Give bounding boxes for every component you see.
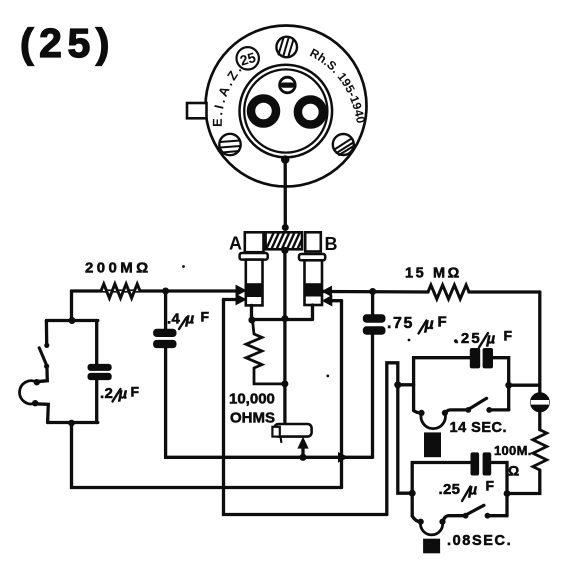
pin hole left xyxy=(251,99,276,124)
switch contact lower xyxy=(44,364,49,369)
wire loop bottom down to bus2 xyxy=(72,423,342,488)
wire loop1 tap to lamp column xyxy=(509,384,540,387)
node at block bottom xyxy=(281,247,288,254)
svg-text:µ: µ xyxy=(486,331,496,348)
svg-text:B: B xyxy=(325,234,338,254)
svg-text:Ω: Ω xyxy=(508,463,519,479)
switch contact upper xyxy=(44,343,49,348)
wire to plug xyxy=(37,367,48,382)
arrow on bus1 xyxy=(339,453,348,462)
timer switch loop top xyxy=(46,319,97,322)
pin B body xyxy=(305,260,323,305)
pin B flange xyxy=(299,254,325,260)
small top pin hole xyxy=(280,77,296,93)
loop2 thermal element xyxy=(423,539,440,554)
node wiper/bus1 xyxy=(299,454,306,461)
svg-text:15 MΩ: 15 MΩ xyxy=(405,266,462,282)
socket inner ring xyxy=(239,65,332,158)
node loop bottom xyxy=(68,420,75,427)
wire pin A lower arrow xyxy=(224,298,238,301)
capacitor .25uF no2 plates xyxy=(471,452,480,475)
svg-text:14 SEC.: 14 SEC. xyxy=(450,420,508,436)
wire plug to loop bottom xyxy=(35,404,48,423)
svg-text:F: F xyxy=(504,328,513,344)
potentiometer wiper arrow xyxy=(301,448,304,458)
loop bottom edge xyxy=(48,421,98,424)
capacitor .4uF upper lead xyxy=(164,291,167,330)
loop1 lamp xyxy=(414,411,422,413)
terminal block (hatched) xyxy=(266,232,302,249)
svg-text:µ: µ xyxy=(468,482,478,499)
svg-text:OHMS: OHMS xyxy=(230,410,275,427)
switch branch upper wire xyxy=(45,321,49,345)
node center wire cross xyxy=(281,315,288,322)
node loop2 left feed xyxy=(409,490,416,497)
resistor 100Mohm xyxy=(533,430,547,470)
svg-text:.4: .4 xyxy=(167,311,180,328)
jumper loop over xyxy=(387,363,412,515)
pin A top insulator xyxy=(245,232,264,252)
socket cathode dot xyxy=(281,155,290,164)
screw bottom-left xyxy=(219,134,240,155)
wire jewel to resistor xyxy=(538,411,541,430)
svg-text:F: F xyxy=(486,478,495,494)
wire pin A lower to bus3 xyxy=(224,300,387,515)
capacitor .2uF lower lead xyxy=(95,380,98,423)
loop1 switch xyxy=(465,407,471,413)
svg-text:.75: .75 xyxy=(387,315,414,332)
wire jumper to loop1 xyxy=(398,383,414,386)
loop2 switch xyxy=(463,513,469,519)
svg-text:10,000: 10,000 xyxy=(229,391,275,408)
ink speck 2 xyxy=(326,375,329,378)
arrow into pin A upper xyxy=(236,286,246,296)
resistor 15Mohm xyxy=(428,285,469,299)
resistor 200Mohm xyxy=(101,284,140,298)
capacitor .4uF lower lead to bus1 xyxy=(166,348,373,458)
capacitor .75uF upper lead xyxy=(371,292,374,316)
resistor 10000 ohms xyxy=(246,321,285,384)
ink speck 1 xyxy=(182,265,185,268)
svg-text:.08SEC.: .08SEC. xyxy=(447,533,512,549)
node main/.75uF xyxy=(369,288,376,295)
loop2 lamp xyxy=(412,516,421,522)
svg-text:.25: .25 xyxy=(439,481,461,498)
plug contact bottom xyxy=(32,400,38,406)
ink speck 4 xyxy=(454,339,457,342)
loop1 thermal element xyxy=(424,432,441,457)
relay loop2 frame xyxy=(412,463,507,517)
node loop1 right tap xyxy=(505,382,512,389)
pin A body xyxy=(246,260,263,306)
wire pin B lower down xyxy=(340,301,343,488)
wire main right xyxy=(322,290,539,294)
node resistor/center wire xyxy=(281,380,288,387)
wire pin B lower arrow xyxy=(332,299,342,302)
svg-text:µ: µ xyxy=(185,311,195,328)
arrow into pin B upper xyxy=(322,287,331,297)
wire resistor to loop2 tap xyxy=(507,470,540,494)
svg-text:.25: .25 xyxy=(455,330,482,347)
pin hole right xyxy=(298,100,323,125)
wire left feed down xyxy=(70,291,73,321)
node jumper/loop1 feed xyxy=(394,381,401,388)
wire pin bottoms join xyxy=(252,305,313,320)
capacitor .25uF no1 plates xyxy=(470,348,480,368)
pin B top insulator xyxy=(305,232,321,251)
svg-text:A: A xyxy=(229,234,242,254)
potentiometer body xyxy=(274,424,311,437)
node loop top xyxy=(69,317,76,324)
svg-text:µ: µ xyxy=(424,316,434,333)
right column wire upper xyxy=(538,292,541,394)
photocell socket outer shell xyxy=(206,26,367,187)
node pinA bottom xyxy=(248,317,255,324)
plug contact top xyxy=(34,379,40,385)
screw top xyxy=(276,37,297,58)
node main/4uF xyxy=(162,288,169,295)
svg-text:F: F xyxy=(131,384,140,400)
wire main left xyxy=(72,289,238,292)
svg-text:100M.: 100M. xyxy=(494,443,532,458)
svg-text:200MΩ: 200MΩ xyxy=(85,260,152,277)
socket number badge 25 xyxy=(237,47,259,69)
node loop2 right tap xyxy=(504,490,511,497)
capacitor .4uF plates xyxy=(153,329,176,337)
socket keying tab xyxy=(187,103,207,118)
capacitor .75uF plates xyxy=(363,314,386,322)
svg-text:(25): (25) xyxy=(20,20,115,66)
center electrode wire xyxy=(283,250,286,424)
pin A flange xyxy=(240,253,268,260)
capacitor .75uF lower lead xyxy=(371,335,374,458)
ink speck 3 xyxy=(408,339,411,342)
svg-text:F: F xyxy=(201,309,210,325)
plug loop arc xyxy=(20,381,37,404)
capacitor .2uF plates xyxy=(88,364,112,371)
relay loop1 frame xyxy=(414,358,509,411)
switch blade xyxy=(39,348,47,366)
svg-text:F: F xyxy=(438,314,447,331)
jewel lamp xyxy=(531,394,549,412)
svg-text:µ: µ xyxy=(118,386,128,403)
svg-text:.2: .2 xyxy=(100,385,113,402)
capacitor .2uF upper lead xyxy=(95,321,98,365)
screw bottom-right xyxy=(333,134,354,155)
wire socket to terminal block xyxy=(284,160,287,228)
node at block top xyxy=(282,224,289,231)
